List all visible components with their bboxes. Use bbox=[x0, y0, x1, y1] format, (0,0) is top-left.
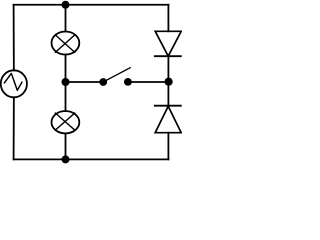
wire right vertical lower stub bbox=[167, 133, 169, 160]
wire middle horizontal left of switch bbox=[66, 81, 104, 83]
switch S1 bbox=[99, 68, 132, 86]
wire bottom horizontal bbox=[14, 158, 169, 160]
voltage source V1 (AC) bbox=[1, 70, 27, 97]
wire right vertical upper stub bbox=[167, 5, 169, 32]
wire middle horizontal right of switch bbox=[128, 81, 168, 83]
lamp L2 bbox=[52, 111, 80, 133]
wire top horizontal bbox=[14, 4, 169, 6]
wire left vertical upper bbox=[13, 5, 15, 71]
wire left vertical lower bbox=[13, 97, 15, 159]
diode D2 (cathode up) bbox=[155, 106, 181, 133]
diode D1 (cathode down) bbox=[155, 31, 181, 56]
node bottom junction bbox=[62, 155, 70, 163]
lamp L1 bbox=[52, 32, 80, 55]
node top junction bbox=[62, 1, 70, 9]
wire middle branch lower stub bbox=[65, 133, 67, 159]
wire right vertical between diodes bbox=[167, 56, 169, 105]
node right junction bbox=[165, 78, 173, 86]
node middle junction bbox=[62, 78, 70, 86]
wire middle branch center bbox=[65, 55, 67, 112]
wire middle branch upper stub bbox=[65, 5, 67, 32]
